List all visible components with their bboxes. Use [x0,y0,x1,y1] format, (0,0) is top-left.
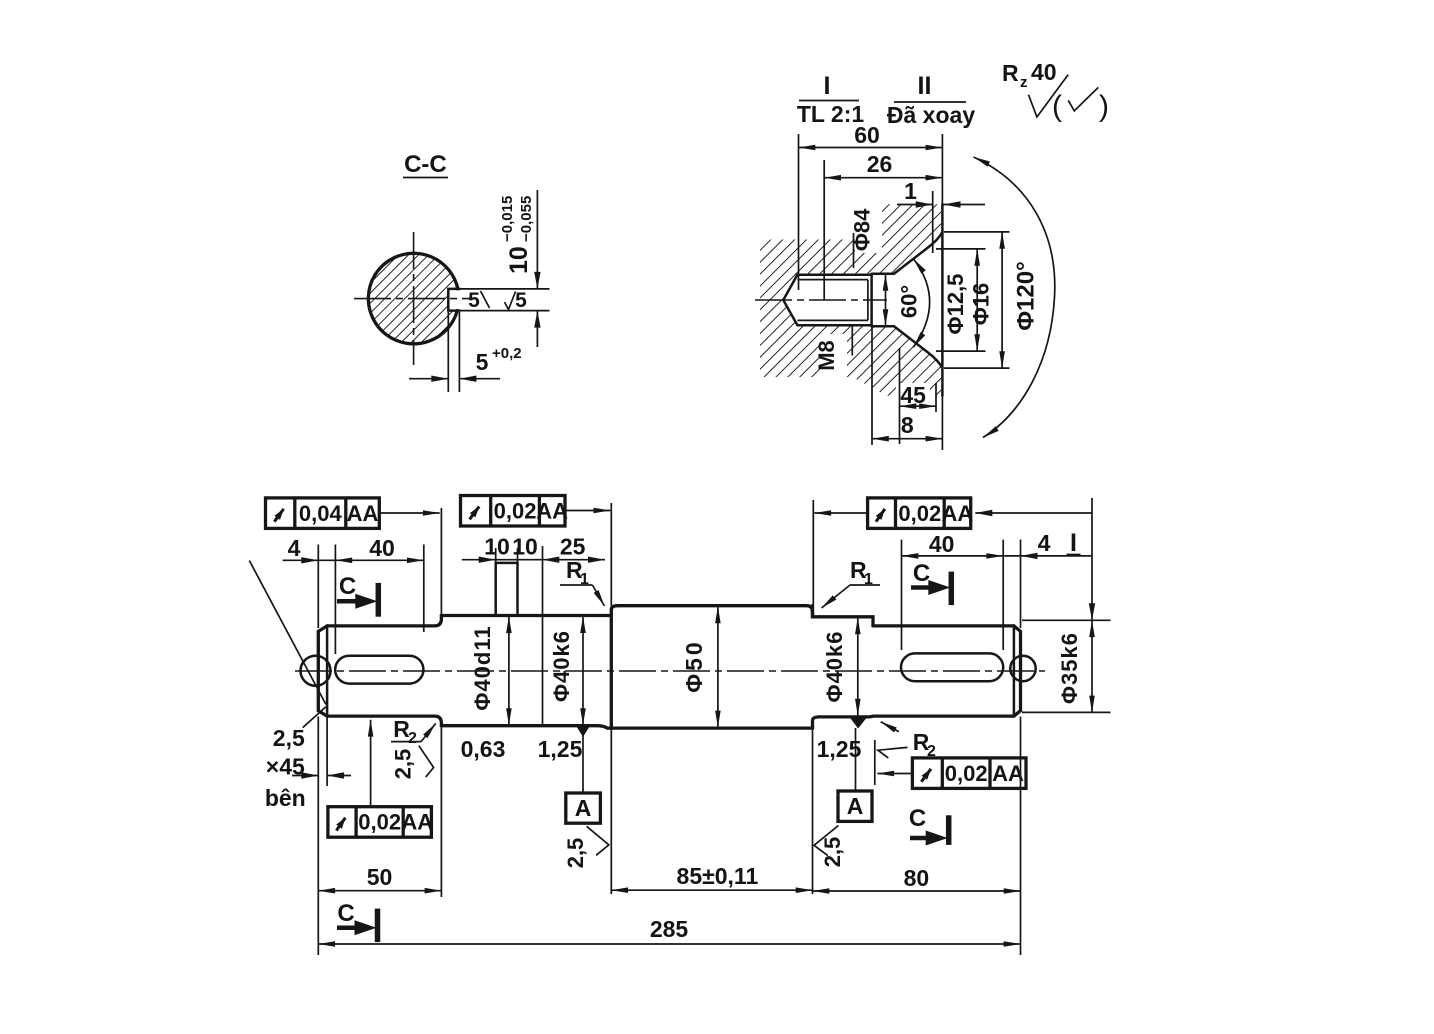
svg-text:2,5: 2,5 [273,725,305,751]
svg-text:40: 40 [369,535,395,561]
svg-text:AA: AA [347,501,379,526]
svg-text:2,5: 2,5 [820,837,845,868]
section arrow C top-right [949,572,955,606]
svg-text:25: 25 [560,534,586,560]
C-C keyway width 10 dimension [536,190,538,289]
svg-text:(: ( [1052,90,1062,123]
svg-text:40: 40 [929,531,955,557]
diameter phi40k6 dimension right [857,618,859,716]
white knockouts for detail labels [855,205,882,253]
svg-text:I: I [1070,529,1077,557]
svg-text:4: 4 [1038,530,1051,556]
svg-text:2: 2 [408,730,417,747]
dimension 4 right [1020,540,1022,628]
svg-text:60°: 60° [897,285,922,318]
svg-text:C: C [339,573,356,600]
svg-text:10: 10 [505,246,533,274]
pilot hole and 60-degree countersink profile [872,232,943,274]
svg-text:0,02: 0,02 [358,810,401,835]
dimension phi 8,4 [853,233,855,268]
datum A left [582,727,584,794]
svg-text:0,63: 0,63 [461,736,506,762]
svg-text:45: 45 [900,382,926,408]
svg-text:5: 5 [515,289,527,312]
svg-text:0,04: 0,04 [299,501,343,526]
roughness 2,5 at right shoulder [814,826,838,856]
runout frame 0,02 AA top-right [868,498,971,529]
svg-text:40: 40 [1031,59,1057,85]
C-C keyway notch [448,289,460,311]
svg-text:5: 5 [476,349,489,375]
roughness 2,5 below phi40k6 left [587,826,609,855]
shaft outline [318,626,327,716]
dimension 45 of detail [899,348,901,444]
svg-text:5: 5 [468,289,480,312]
dimension 1 of detail [932,191,934,253]
svg-text:0,02: 0,02 [898,501,941,526]
svg-text:0,02: 0,02 [494,499,537,524]
svg-text:C: C [913,560,930,587]
svg-text:A: A [575,795,592,821]
svg-text:0,02: 0,02 [945,761,988,786]
svg-text:I: I [824,72,831,100]
dimension 8 of detail [871,326,873,445]
svg-text:2,5: 2,5 [563,838,588,869]
dimension 285 overall length [318,943,1020,945]
svg-text:): ) [1099,90,1109,123]
diameter phi40k6 dimension left [582,616,584,725]
svg-text:R: R [1002,60,1019,86]
datum A right [849,717,868,729]
dimension text 10 -0,015/-0,055 [499,196,535,274]
dimension 80 [1020,717,1022,956]
left keyway slot [335,656,423,684]
svg-text:1: 1 [904,178,917,204]
svg-text:bên: bên [265,785,306,811]
svg-text:Φ50: Φ50 [681,639,707,692]
svg-text:Φ12,5: Φ12,5 [943,274,968,335]
detail centerline [755,299,887,301]
svg-text:Φ40k6: Φ40k6 [549,630,574,702]
svg-text:60: 60 [854,122,880,148]
svg-text:AA: AA [536,499,568,524]
right keyway slot [901,653,1003,681]
svg-text:85±0,11: 85±0,11 [677,863,759,889]
svg-text:M8: M8 [814,340,839,371]
svg-text:AA: AA [992,761,1024,786]
svg-text:8: 8 [901,412,914,438]
svg-text:z: z [1020,74,1028,91]
svg-text:II: II [918,72,932,100]
roughness 2,5 at left shoulder fillet [419,746,434,777]
C-C shaft cross-section circle (hatched) [368,253,458,344]
svg-text:285: 285 [650,916,689,942]
dimension 26 of detail [823,160,825,300]
svg-text:C-C: C-C [404,151,447,178]
svg-text:Đã xoay: Đã xoay [887,102,975,128]
dimensions 10 10 25 over phi40 section [462,559,605,561]
60 degree angle dimension with arc [913,259,929,348]
svg-text:80: 80 [904,865,930,891]
thread label M8 [851,326,853,356]
svg-text:10: 10 [484,534,510,560]
svg-text:1,25: 1,25 [538,736,583,762]
svg-text:50: 50 [367,864,393,890]
right end center hole circle (detail I) [1010,656,1035,681]
boundary line between phi40d11 and phi40k6 [542,546,544,726]
svg-text:−0,015: −0,015 [499,196,516,242]
svg-text:C: C [337,900,354,927]
svg-text:26: 26 [867,151,893,177]
svg-text:4: 4 [288,535,301,561]
svg-text:Φ120°: Φ120° [1013,261,1040,330]
dimension 85 +/-0,11 [610,729,612,895]
dimension 4 left [317,545,319,629]
M8 thread bore profile [783,275,871,325]
dimension 60 of detail [798,134,800,290]
svg-text:AA: AA [942,501,974,526]
rotation arc phi 120 [974,157,1055,438]
section arrow C bottom-left [375,909,381,943]
detail end face line [941,134,943,450]
svg-text:Φ16: Φ16 [968,283,993,326]
svg-text:C: C [909,805,926,832]
dimension 40 right keyway [901,540,903,650]
runout frame 0,02 AA bottom-left [328,807,432,838]
diameter phi50 dimension [717,607,719,728]
diameter phi40d11 dimension [508,616,510,725]
svg-text:Φ40k6: Φ40k6 [822,631,847,703]
svg-text:2,5: 2,5 [391,749,416,780]
diameter phi35k6 dimension [1022,619,1111,621]
left end center hole circle [301,656,331,686]
svg-text:Φ35k6: Φ35k6 [1057,632,1082,704]
detail section hatched material [760,204,941,395]
runout frame 0,02 AA bottom-right [912,758,1026,789]
svg-text:+0,2: +0,2 [492,345,522,362]
svg-text:AA: AA [401,810,433,835]
dimension 50 [317,717,319,956]
dimension phi 12,5 [936,248,986,250]
chamfer width dimension arrows [292,775,318,777]
section arrow C top-left [376,583,382,617]
dimension phi 16 [944,231,1010,233]
section arrow C bottom-right [946,815,952,845]
main view centerline [295,670,1045,672]
key cross-section rectangle on phi40d11 [496,563,518,616]
svg-text:−0,055: −0,055 [518,196,535,242]
C-C centerlines [413,232,415,365]
runout frame 0,02 AA top-middle [461,496,566,527]
runout frame 0,04 AA top-left [266,498,380,529]
svg-text:Φ84: Φ84 [849,208,874,251]
dimension 40 left keyway [423,545,425,633]
C-C keyway depth extension lines [447,312,449,392]
C-C keyway depth 5+0,2 dimension [409,378,448,380]
svg-text:Φ40d11: Φ40d11 [470,625,495,710]
svg-text:A: A [847,793,864,819]
C-C keyway width extension lines [460,288,550,290]
svg-text:10: 10 [512,534,538,560]
